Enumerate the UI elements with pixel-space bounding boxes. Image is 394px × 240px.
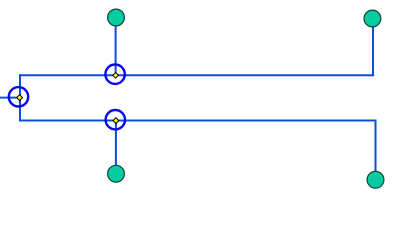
node J3 junction diamond xyxy=(113,118,119,124)
wire from terminal T1 down to node J2 xyxy=(115,18,117,76)
terminal T2 (top-right pad) xyxy=(364,10,381,27)
terminal T1 (top-left pad) xyxy=(108,9,125,26)
node J2 junction ring xyxy=(105,65,124,84)
node J3 junction ring xyxy=(106,110,125,129)
wire from left edge to node J1 xyxy=(0,97,21,99)
wire from node J3 down to terminal T3 xyxy=(115,121,117,174)
wire bottom horizontal net xyxy=(19,120,377,122)
node J1 junction diamond xyxy=(17,95,23,101)
wire left vertical bus (J1 up/down legs) xyxy=(19,74,21,121)
terminal T4 (bottom-right pad) xyxy=(367,171,384,188)
wire top horizontal net xyxy=(19,74,374,76)
node J1 junction ring xyxy=(9,87,28,106)
terminal T3 (bottom-left pad) xyxy=(108,165,125,182)
node J2 junction diamond xyxy=(113,72,119,78)
wire from terminal T2 down to top-right corner xyxy=(372,19,374,77)
wire from bottom-right corner down to terminal T4 xyxy=(375,120,377,180)
